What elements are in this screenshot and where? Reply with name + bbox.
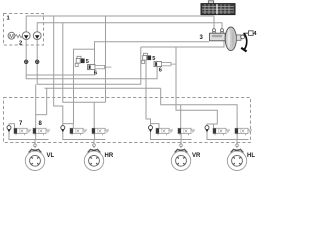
motor coupling	[15, 35, 22, 38]
svg-text:5: 5	[86, 59, 89, 65]
wire circuit line L1 from master cylinder	[95, 42, 210, 50]
wire G3 valve6 feed	[180, 105, 182, 129]
brake booster	[225, 27, 236, 51]
wire wheel tap VR	[180, 140, 182, 149]
svg-text:M: M	[9, 34, 14, 40]
pushrod	[236, 35, 244, 40]
accumulator 5 circuit2	[142, 53, 151, 63]
wire wheel bus G4	[207, 134, 249, 140]
reservoir	[201, 1, 235, 15]
svg-text:4: 4	[253, 31, 257, 37]
svg-text:VL: VL	[47, 153, 55, 159]
wire wheel bus G3	[151, 134, 192, 140]
solenoid valve 7 group 3	[156, 128, 173, 135]
damper 6 circuit2	[154, 62, 176, 67]
wire feed from H1 down	[54, 16, 63, 126]
damper 6 circuit1	[88, 65, 112, 70]
wire G3 feed from bus	[161, 88, 237, 128]
svg-text:HL: HL	[247, 153, 255, 159]
wire distribution bus y88	[45, 87, 161, 89]
svg-text:6: 6	[94, 70, 97, 76]
accumulator 5 circuit1	[75, 56, 84, 66]
wire damper2 feed down	[146, 61, 151, 126]
svg-text:5: 5	[152, 56, 155, 62]
motor M	[8, 32, 15, 39]
svg-text:HR: HR	[105, 153, 114, 159]
wire pump1 branch to loop1 bottom	[26, 74, 73, 76]
check valve pump1 outlet	[25, 60, 28, 63]
wire pump2 discharge loop	[37, 39, 141, 84]
wire pump1 discharge to loop1	[26, 39, 157, 78]
master cylinder 3	[210, 29, 226, 41]
wire circuit line L2 from master cylinder	[141, 41, 224, 48]
check valve pump2 outlet	[36, 60, 39, 63]
wire bracket G1	[9, 124, 15, 129]
wheel brake HR	[84, 144, 103, 171]
solenoid valve 7 group 2	[70, 128, 87, 135]
wire tall feed from H1 at x106.6	[105, 16, 107, 102]
wire wheel tap HL	[236, 140, 238, 149]
solenoid valve 7 group 4	[213, 128, 230, 135]
svg-text:6: 6	[159, 67, 162, 73]
wheel brake VL	[25, 144, 44, 171]
wheel brake HL	[227, 144, 246, 171]
wire G1 feed leg2	[46, 88, 48, 114]
svg-text:2: 2	[19, 41, 22, 47]
wire bracket G2	[63, 124, 74, 129]
hydraulic unit dashed box 1	[4, 14, 44, 46]
wire feed down to G2 valves	[73, 75, 75, 124]
wheel brake VR	[171, 144, 190, 171]
check valve group 3	[149, 126, 153, 135]
check valve group 1	[7, 126, 11, 135]
wire wheel bus G2	[63, 134, 106, 140]
solenoid valve 8 group 2	[92, 128, 109, 135]
wire valve4 feed leg	[93, 102, 95, 128]
check valve group 4	[205, 126, 209, 135]
svg-text:VR: VR	[192, 153, 201, 159]
pump P1	[22, 32, 30, 40]
valve block dashed box	[4, 98, 251, 143]
wire H2 return line	[37, 23, 222, 32]
solenoid valve 8 group 3	[178, 128, 195, 135]
wire wheel tap HR	[93, 140, 95, 149]
wire wheel bus G1	[9, 134, 49, 140]
wire G1 feed rectangle	[35, 84, 37, 128]
wire H1 return line	[26, 16, 214, 32]
check valve group 2	[61, 126, 65, 135]
wire feed from H2 down	[63, 23, 106, 103]
wire loop1 rect	[74, 49, 95, 75]
wire wheel tap VL	[34, 140, 36, 149]
wire bracket G4	[207, 124, 214, 128]
brake pedal 4	[241, 31, 253, 52]
solenoid valve 8 group 4	[235, 128, 252, 135]
wire bracket G3	[151, 124, 160, 129]
solenoid valve 8 group 1	[33, 128, 50, 135]
wire G1 sub-bus	[36, 114, 47, 116]
wire loop2 right edge	[176, 47, 217, 124]
pump P2	[33, 32, 41, 40]
solenoid valve 7 group 1	[14, 128, 31, 135]
